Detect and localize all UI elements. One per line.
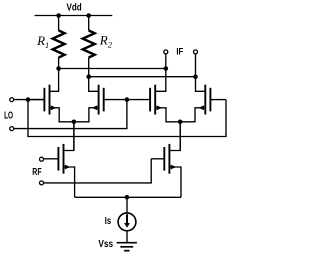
terminal IF+ [194, 50, 198, 54]
svg-text:Vdd: Vdd [67, 3, 82, 14]
wire current source to ground [126, 231, 128, 243]
wire tail node [75, 196, 181, 198]
resistor R1 [53, 31, 65, 58]
node tail/Is junction [125, 195, 130, 200]
transistor M1 (LO+ switch) [28, 69, 74, 122]
svg-text:Vss: Vss [98, 239, 113, 250]
wire tail to current source [126, 197, 128, 213]
wire RF- to Q2 gate [44, 159, 152, 183]
node IF+ bus end [193, 74, 198, 79]
wire R2 top lead [88, 16, 90, 31]
svg-text:LO: LO [4, 110, 13, 121]
current source Is [118, 213, 136, 231]
wire LO- to M2/M3 gate node [14, 100, 127, 129]
wire IF- stub [165, 54, 167, 69]
node R1/M1 drain [56, 66, 61, 71]
node IF- bus end [164, 66, 169, 71]
terminal LO- [10, 127, 14, 131]
transistor Q1 (RF+) [44, 122, 75, 198]
node Vdd-R2 [86, 13, 91, 18]
wire LO+ to M1 gate [14, 99, 45, 101]
svg-text:RF: RF [32, 166, 42, 178]
Vdd rail [35, 15, 113, 17]
transistor M4 (LO+ switch) [180, 77, 226, 122]
ground Vss [117, 243, 137, 251]
wire IF+ stub [195, 54, 197, 77]
wire R2 bottom lead [88, 58, 90, 77]
node LO+ branch [26, 97, 31, 102]
node Vdd-R1 [56, 13, 61, 18]
wire lower IF bus [89, 76, 196, 78]
terminal RF- [40, 181, 44, 185]
node M2/M3 gate junction [125, 97, 130, 102]
wire M3M4 sources to Q2 drain [179, 122, 181, 151]
transistor M3 (LO- switch) [127, 69, 180, 122]
wire upper IF bus [59, 68, 166, 70]
svg-text:IF: IF [176, 46, 183, 57]
terminal RF+ [40, 157, 44, 161]
wire R1 bottom lead [58, 58, 60, 69]
wire LO+ cross branch to M4 gate [28, 100, 226, 137]
terminal IF- [164, 50, 168, 54]
transistor M2 (LO- switch) [74, 77, 127, 122]
node M1/M2 source junction [72, 120, 77, 125]
node R2/M2 drain [86, 74, 91, 79]
wire M1M2 sources to Q1 drain [73, 122, 75, 151]
terminal LO+ [10, 98, 14, 102]
node M3/M4 source junction [178, 120, 183, 125]
resistor R2 [83, 31, 95, 58]
svg-text:Is: Is [105, 216, 112, 227]
transistor Q2 (RF-) [151, 122, 181, 198]
wire R1 top lead [58, 16, 60, 31]
